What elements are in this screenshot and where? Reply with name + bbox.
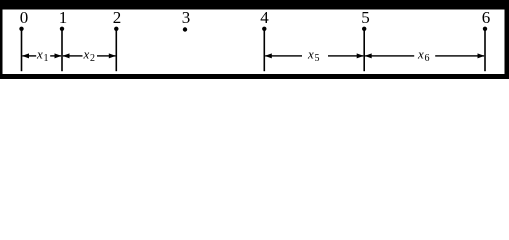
node 0 dot: [19, 27, 23, 31]
arrow x5 right head: [357, 53, 364, 58]
border bottom: [0, 74, 509, 79]
svg-text:5: 5: [361, 8, 370, 27]
arrow x1 right head: [55, 53, 62, 58]
tick line 1: [61, 29, 63, 71]
border right: [504, 0, 509, 79]
tick line 0: [21, 29, 23, 71]
svg-text:2: 2: [90, 53, 95, 64]
label x1: [36, 47, 49, 65]
tick line 2: [116, 29, 118, 71]
node 3 dot: [183, 27, 187, 31]
svg-text:1: 1: [44, 53, 49, 64]
svg-text:4: 4: [260, 8, 269, 27]
arrow x1 label gap: [36, 50, 50, 62]
tick line 5: [363, 29, 365, 71]
arrow x6 right head: [478, 53, 485, 58]
svg-text:x: x: [307, 47, 314, 62]
svg-text:x: x: [83, 47, 90, 62]
border left: [0, 0, 3, 79]
arrow x6 shaft: [365, 55, 484, 56]
label x2: [83, 47, 96, 65]
svg-text:3: 3: [182, 8, 191, 27]
node 6 dot: [483, 27, 487, 31]
arrow x5 label gap: [302, 50, 328, 62]
tick line 4: [264, 29, 266, 71]
svg-text:0: 0: [20, 8, 29, 27]
arrow x2 label gap: [83, 50, 98, 62]
arrow x2 left head: [63, 53, 70, 58]
arrow x2 shaft: [63, 55, 116, 56]
arrow x6 left head: [365, 53, 372, 58]
arrow x1 shaft: [22, 55, 61, 56]
node 5 dot: [362, 27, 366, 31]
svg-text:1: 1: [59, 8, 68, 27]
node 2 dot: [114, 27, 118, 31]
svg-text:2: 2: [113, 8, 122, 27]
arrow x5 left head: [265, 53, 272, 58]
node 4 dot: [262, 27, 266, 31]
arrow x5 shaft: [265, 55, 363, 56]
label x6: [417, 47, 430, 65]
svg-text:x: x: [36, 47, 43, 62]
svg-text:6: 6: [425, 53, 430, 64]
svg-text:x: x: [417, 47, 424, 62]
tick line 6: [484, 29, 486, 71]
border top: [0, 0, 509, 9]
svg-text:6: 6: [482, 8, 491, 27]
arrow x1 left head: [22, 53, 29, 58]
node 1 dot: [60, 27, 64, 31]
label x5: [307, 47, 320, 65]
arrow x6 label gap: [414, 50, 435, 62]
svg-text:5: 5: [315, 53, 320, 64]
arrow x2 right head: [109, 53, 116, 58]
